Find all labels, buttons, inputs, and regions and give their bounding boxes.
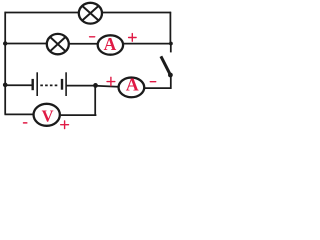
lamp L2 <box>47 34 69 54</box>
wire row2 left <box>5 43 46 45</box>
wire A2 left <box>96 86 118 87</box>
wire switch stub <box>170 44 172 53</box>
ammeter A2 <box>119 75 145 98</box>
wire right vertical <box>169 12 171 44</box>
battery cell 1 long thin plate <box>36 72 38 96</box>
wire row2 right <box>124 43 171 45</box>
svg-text:A: A <box>126 75 139 95</box>
battery cell 2 short thick plate <box>61 79 63 90</box>
wire A2 right <box>145 87 172 89</box>
label minus of A2 <box>150 81 155 83</box>
battery cell 1 short thick plate <box>32 79 34 90</box>
svg-text:V: V <box>42 106 54 125</box>
wire voltmeter branch vertical <box>94 86 96 116</box>
wire top left segment <box>5 12 79 14</box>
node junction dot voltmeter branch <box>93 83 98 88</box>
wire top right segment <box>103 12 171 14</box>
label minus of A1 <box>90 36 95 38</box>
switch S pivot dot <box>168 73 173 78</box>
switch S lever <box>161 56 170 74</box>
wire left vertical <box>4 12 6 115</box>
battery cell 2 long thin plate <box>65 72 67 96</box>
node junction dot row2 left <box>3 41 7 45</box>
label plus of A1 <box>129 34 137 42</box>
ammeter A1 <box>98 34 123 55</box>
battery dashed link <box>40 84 57 86</box>
label plus of A2 <box>107 77 115 85</box>
wire row2 middle <box>70 43 97 45</box>
svg-text:A: A <box>104 34 117 54</box>
wire bottom right <box>61 114 97 116</box>
node junction dot battery left <box>3 83 8 88</box>
wire below switch <box>170 75 172 89</box>
wire battery right <box>67 85 96 87</box>
label plus of V <box>61 121 69 129</box>
lamp L1 <box>79 3 102 24</box>
wire battery left <box>5 84 32 86</box>
node junction dot row2 right <box>169 42 173 46</box>
label minus of V <box>24 122 27 124</box>
voltmeter V <box>34 104 60 126</box>
wire bottom left <box>5 113 34 115</box>
